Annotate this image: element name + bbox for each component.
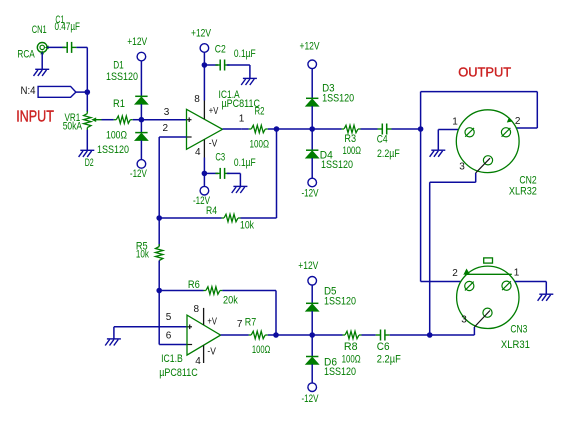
svg-text:2.2µF: 2.2µF (377, 353, 401, 365)
pin 7 label (237, 319, 243, 330)
ground for C2 (241, 78, 257, 85)
wire CN3 pin3 up (473, 327, 475, 335)
power -12V for D2 (137, 160, 146, 169)
wire to C2 (204, 64, 218, 66)
svg-text:CN1: CN1 (32, 24, 47, 36)
svg-text:C2: C2 (215, 43, 226, 55)
svg-text:3: 3 (461, 314, 467, 325)
pin 8 label (194, 94, 200, 105)
svg-text:D1: D1 (113, 59, 124, 71)
pin 2 label (163, 123, 169, 134)
label XLR31 (501, 339, 530, 351)
value 20k R6 (223, 294, 238, 306)
wire node G to R8 (312, 334, 342, 336)
label -V IC1.A (209, 139, 218, 150)
value 0.47uF (55, 21, 81, 33)
wire to C3 (204, 172, 218, 174)
svg-text:XLR32: XLR32 (509, 185, 537, 197)
CN2 pin number 1 (452, 116, 458, 127)
CN2 latch arrow (507, 117, 513, 122)
op-amp U2 IC1.B triangle (187, 315, 221, 355)
svg-text:R4: R4 (206, 205, 217, 217)
label D2 (85, 157, 94, 169)
label R8 (344, 341, 358, 353)
wire to R2 (242, 128, 249, 130)
label uPC811C IC1.B (159, 367, 198, 379)
power +12V for D5 (308, 277, 317, 286)
svg-text:2: 2 (452, 268, 458, 279)
resistor R4 (222, 214, 241, 221)
svg-text:3: 3 (459, 162, 465, 173)
pin 5 label (166, 312, 172, 323)
wire node G to D6 (311, 335, 313, 357)
power +12V for D1 (137, 52, 146, 61)
wire C3 to ground (227, 173, 241, 186)
node R4 left (156, 215, 162, 221)
wire D5 to node G (311, 311, 313, 335)
svg-text:1: 1 (452, 116, 458, 127)
value 0.1uF C2 (234, 48, 256, 60)
value 10k R5 (136, 248, 149, 260)
svg-text:-12V: -12V (130, 168, 147, 180)
wire D4 to -12V (311, 158, 313, 178)
svg-text:CN3: CN3 (510, 324, 527, 336)
diode D2 (135, 133, 148, 141)
CN3 pin 3 circle (483, 308, 492, 317)
wire D1 to node B (140, 104, 142, 120)
svg-text:IC1.B: IC1.B (161, 353, 183, 365)
node G junction (309, 332, 315, 338)
label +12V D1 (127, 36, 148, 48)
svg-text:-V: -V (207, 347, 216, 358)
wire R4 left lead (159, 217, 221, 219)
node R7 out (273, 332, 279, 338)
wire R7 to node G (268, 334, 313, 336)
svg-text:C6: C6 (377, 341, 390, 353)
label +12V IC1.A (191, 28, 212, 40)
label R4 (206, 205, 217, 217)
diode D3 (306, 98, 319, 106)
pin 4 label (195, 147, 201, 158)
svg-text:1SS120: 1SS120 (324, 296, 356, 308)
value 100 ohm R1 (106, 130, 127, 142)
resistor R1 (114, 116, 133, 123)
svg-text:100Ω: 100Ω (252, 344, 270, 356)
wire C2 to ground (227, 65, 250, 78)
capacitor C3 (215, 168, 229, 179)
net flag N:4 (38, 86, 87, 97)
wire node B to op-amp pin3 (141, 119, 186, 121)
wire RCA to ground (41, 52, 43, 69)
wire D2 to -12V (140, 140, 142, 159)
wire C1 to node A (76, 46, 87, 48)
CN3 latch arrow (463, 269, 469, 275)
wire R6 down (275, 291, 277, 336)
node R2 out (274, 126, 280, 132)
value 1SS120 D4 (321, 159, 353, 171)
label R6 (188, 279, 200, 291)
CN2 pin3 stub (476, 158, 490, 173)
wire pin3 left (430, 181, 476, 183)
label -12V D6 (302, 393, 319, 405)
CN3 pin number 3 (461, 314, 467, 325)
svg-text:1SS120: 1SS120 (106, 71, 138, 83)
node C3 tap (202, 171, 208, 177)
label N:4 (21, 85, 36, 97)
svg-text:-12V: -12V (302, 187, 319, 199)
svg-text:+12V: +12V (298, 260, 319, 272)
label CN3 (510, 324, 527, 336)
wire +12V to D1 (140, 61, 142, 96)
resistor R3 (342, 125, 361, 132)
ground CN2 pin1 (430, 150, 446, 157)
wire +12V to D5 (311, 285, 313, 303)
wire node H to CN3 pin3 (430, 334, 475, 336)
label R3 (344, 133, 356, 145)
value 50kA (63, 121, 83, 133)
resistor R6 (203, 287, 222, 294)
value 1SS120 D1 (106, 71, 138, 83)
wire pin3 down (475, 173, 477, 182)
svg-text:6: 6 (166, 330, 172, 341)
wire CN2 pin1 down (437, 130, 439, 151)
plus sign IC1.A (187, 117, 192, 122)
label D6 (324, 356, 337, 368)
ground IC1.B plus (105, 339, 121, 346)
svg-text:1: 1 (239, 113, 245, 124)
wire node E long down (420, 129, 422, 282)
ground below RCA (34, 69, 50, 76)
wire to CN2 pin2 (516, 127, 537, 129)
value 2.2uF C4 (377, 148, 400, 160)
label R5 (136, 241, 148, 253)
value 1SS120 D5 (324, 296, 356, 308)
label OUTPUT (458, 64, 511, 79)
svg-text:100Ω: 100Ω (343, 145, 362, 157)
svg-text:5: 5 (166, 312, 172, 323)
svg-text:100Ω: 100Ω (342, 353, 361, 365)
pin 4 label IC1.B (195, 356, 201, 367)
wire down right (536, 92, 538, 128)
wire pin2 left (159, 136, 186, 138)
wire R6 right (222, 290, 276, 292)
label D1 (113, 59, 124, 71)
svg-text:XLR31: XLR31 (501, 339, 530, 351)
CN2 pin 3 circle (483, 156, 492, 165)
svg-text:R6: R6 (188, 279, 200, 291)
wire CN2 pin1 left (438, 129, 458, 131)
value 100 ohm R2 (250, 139, 270, 151)
minus sign IC1.B (188, 344, 193, 346)
wire C6 to node H (390, 334, 430, 336)
svg-text:2.2µF: 2.2µF (377, 148, 400, 160)
wire node B to D2 (140, 120, 142, 133)
svg-text:N:4: N:4 (21, 85, 36, 97)
power +12V for D3 (308, 60, 317, 69)
value 10k R4 (240, 219, 254, 231)
wire ground up (113, 327, 115, 339)
pin 8 label IC1.B (194, 304, 200, 315)
svg-text:D2: D2 (85, 157, 94, 169)
svg-text:2: 2 (515, 116, 521, 127)
node H junction (427, 332, 433, 338)
svg-text:0.1µF: 0.1µF (234, 48, 256, 60)
svg-text:R3: R3 (344, 133, 356, 145)
svg-text:+V: +V (209, 106, 219, 117)
svg-text:1: 1 (514, 267, 520, 278)
wire pin2 down (158, 137, 160, 218)
wire to CN3 pin2 (421, 281, 461, 283)
CN3 pin 2 circle (465, 281, 474, 290)
label C3 (215, 151, 225, 163)
wire RCA to C1 (47, 46, 65, 48)
label INPUT (16, 109, 54, 126)
svg-text:4: 4 (195, 356, 201, 367)
wire node D to R3 (312, 128, 341, 130)
wire node A vertical (86, 47, 88, 112)
svg-text:-12V: -12V (302, 393, 319, 405)
value 100 ohm R7 (252, 344, 270, 356)
ground for C3 (232, 186, 248, 193)
node F junction (156, 288, 162, 294)
label IC1.B (161, 353, 183, 365)
power -12V for D6 (308, 383, 317, 392)
wire to pin6 (159, 344, 187, 346)
svg-text:C3: C3 (215, 151, 225, 163)
node A junction (85, 89, 91, 95)
diode D1 (135, 96, 148, 104)
wire +12V down IC1.A (203, 52, 205, 100)
resistor R7 (249, 331, 268, 338)
label -V IC1.B (207, 347, 216, 358)
wire R5 to node F (158, 261, 160, 291)
svg-text:R8: R8 (344, 341, 358, 353)
resistor R2 (249, 125, 268, 132)
svg-text:RCA: RCA (17, 49, 35, 61)
svg-text:1SS120: 1SS120 (321, 159, 353, 171)
svg-text:-V: -V (209, 139, 218, 150)
resistor R5 (156, 244, 163, 263)
label C6 (377, 341, 390, 353)
label -12V D2 (130, 168, 147, 180)
capacitor C1 (62, 42, 76, 53)
svg-text:50kA: 50kA (63, 121, 83, 133)
label CN2 (519, 174, 536, 186)
label C4 (377, 134, 388, 146)
wire R2 to node D (268, 128, 312, 130)
wire feedback up (276, 129, 278, 218)
svg-text:8: 8 (194, 304, 200, 315)
svg-text:7: 7 (237, 319, 243, 330)
value 1SS120 D3 (322, 92, 354, 104)
label C2 (215, 43, 226, 55)
CN2 pin number 2 (515, 116, 521, 127)
wire R1 to node B (133, 119, 142, 121)
svg-text:10k: 10k (240, 219, 254, 231)
wire pin1 out (223, 128, 242, 130)
svg-text:0.47µF: 0.47µF (55, 21, 81, 33)
node C2 tap (202, 62, 208, 68)
label IC1.A (219, 89, 241, 101)
pin 1 label (239, 113, 245, 124)
wire D3 to node D (311, 106, 313, 129)
svg-text:20k: 20k (223, 294, 238, 306)
value 100 ohm R8 (342, 353, 361, 365)
pin 3 label (164, 107, 170, 118)
pin 6 label (166, 330, 172, 341)
power -12V for IC1.A (200, 186, 209, 195)
label R7 (245, 317, 256, 329)
svg-text:1SS120: 1SS120 (97, 144, 129, 156)
capacitor C2 (215, 60, 229, 71)
value 1SS120 D2 (97, 144, 129, 156)
label D3 (322, 83, 335, 95)
svg-text:+12V: +12V (191, 28, 212, 40)
label RCA (17, 49, 35, 61)
potentiometer VR1 (84, 111, 102, 130)
minus sign IC1.A (187, 136, 192, 138)
label +V IC1.A (209, 106, 219, 117)
CN3 pin3 stub (474, 311, 490, 328)
node D junction (309, 126, 315, 132)
value 0.1uF C3 (234, 157, 256, 169)
ground below VR1 (79, 150, 95, 157)
wire top across (421, 91, 538, 93)
label -12V D4 (302, 187, 319, 199)
svg-text:0.1µF: 0.1µF (234, 157, 256, 169)
value 1SS120 D6 (324, 366, 356, 378)
pin 4 stub IC1.A (203, 140, 205, 158)
node E junction (418, 126, 424, 132)
power +12V for IC1.A (200, 44, 209, 53)
svg-text:OUTPUT: OUTPUT (458, 64, 511, 79)
connector CN2 body (456, 110, 519, 173)
plus sign IC1.B (187, 325, 192, 330)
svg-text:4: 4 (195, 147, 201, 158)
capacitor C6 (376, 330, 390, 341)
CN2 pin 2 circle (501, 128, 510, 137)
label CN1 (32, 24, 47, 36)
wire +12V to D3 (311, 69, 313, 99)
label D4 (320, 149, 333, 161)
wire VR1 to R1 (102, 119, 114, 121)
label uPC811C IC1.A (222, 98, 261, 110)
wire CN3 pin1 down (545, 282, 547, 295)
wire -V to -12V IC1.A (203, 158, 205, 187)
wire node F to R6 (159, 290, 203, 292)
CN3 pin 1 circle (502, 281, 511, 290)
svg-text:R1: R1 (113, 98, 125, 110)
wire pin3 long down (429, 182, 431, 335)
label R2 (255, 105, 265, 117)
label XLR32 (509, 185, 537, 197)
power -12V for D4 (308, 178, 317, 187)
wire D6 to -12V (311, 364, 313, 383)
label -12V IC1.A (193, 195, 210, 207)
svg-text:+12V: +12V (127, 36, 148, 48)
diode D4 (306, 150, 319, 158)
label +V IC1.B (207, 316, 217, 327)
svg-text:10k: 10k (136, 248, 149, 260)
svg-text:1SS120: 1SS120 (324, 366, 356, 378)
wire CN3 pin1 right (515, 281, 547, 283)
svg-text:µPC811C: µPC811C (159, 367, 198, 379)
pin 4 stub IC1.B (203, 345, 205, 363)
value 100 ohm R3 (343, 145, 362, 157)
wire pin7 out (221, 334, 249, 336)
wire node D to D4 (311, 129, 313, 150)
svg-text:+V: +V (207, 316, 217, 327)
svg-text:2: 2 (163, 123, 169, 134)
wire node F down (158, 291, 160, 345)
svg-text:1SS120: 1SS120 (322, 92, 354, 104)
label +12V D5 (298, 260, 319, 272)
resistor R8 (343, 331, 362, 338)
op-amp U1 IC1.A triangle (187, 109, 223, 149)
label VR1 (65, 112, 81, 124)
pin 8 stub IC1.B (203, 308, 205, 325)
node B junction (139, 117, 145, 123)
label C1 (55, 14, 64, 26)
wire C4 to node E (392, 128, 421, 130)
wire VR1 to ground (86, 130, 88, 151)
CN3 pin number 1 (514, 267, 520, 278)
ground CN3 pin1 (538, 294, 554, 301)
svg-text:R7: R7 (245, 317, 256, 329)
CN3 pin number 2 (452, 268, 458, 279)
wire R8 to C6 (362, 334, 376, 336)
svg-text:8: 8 (194, 94, 200, 105)
wire R4node to R5 (158, 218, 160, 247)
svg-text:100Ω: 100Ω (250, 139, 270, 151)
CN2 pin 1 circle (465, 128, 474, 137)
connector CN1 RCA jack (37, 43, 48, 55)
diode D5 (306, 303, 319, 311)
pin 8 stub IC1.A (203, 101, 205, 120)
svg-text:+12V: +12V (300, 40, 321, 52)
value 2.2uF C6 (377, 353, 401, 365)
svg-text:3: 3 (164, 107, 170, 118)
label R1 (113, 98, 125, 110)
svg-text:INPUT: INPUT (16, 109, 54, 126)
svg-text:C4: C4 (377, 134, 388, 146)
wire R3 to C4 (361, 128, 378, 130)
label D5 (324, 286, 337, 298)
CN2 pin number 3 (459, 162, 465, 173)
svg-text:R2: R2 (255, 105, 265, 117)
wire node E up (420, 92, 422, 129)
svg-text:100Ω: 100Ω (106, 130, 127, 142)
wire ground to pin5 (114, 326, 187, 328)
capacitor C4 (378, 124, 392, 135)
connector CN3 body (457, 258, 519, 329)
wire R4 right (241, 217, 277, 219)
label +12V D3 (300, 40, 321, 52)
diode D6 (306, 357, 319, 365)
